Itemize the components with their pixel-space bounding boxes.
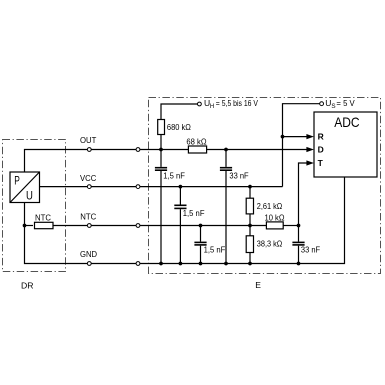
svg-text:H: H	[210, 104, 214, 110]
svg-text:= 5 V: = 5 V	[336, 98, 355, 108]
svg-text:10 kΩ: 10 kΩ	[265, 213, 285, 223]
svg-text:P: P	[14, 174, 20, 188]
svg-text:68 kΩ: 68 kΩ	[186, 137, 206, 147]
svg-text:R: R	[318, 132, 324, 142]
svg-text:1,5 nF: 1,5 nF	[163, 170, 185, 180]
svg-text:DR: DR	[21, 281, 34, 291]
svg-text:1,5 nF: 1,5 nF	[183, 208, 205, 218]
svg-text:T: T	[318, 158, 324, 168]
svg-text:OUT: OUT	[80, 135, 96, 145]
svg-text:E: E	[255, 280, 261, 290]
svg-text:ADC: ADC	[334, 114, 359, 130]
svg-text:38,3 kΩ: 38,3 kΩ	[257, 239, 283, 249]
svg-text:680 kΩ: 680 kΩ	[167, 122, 191, 132]
svg-text:S: S	[331, 103, 335, 110]
svg-text:NTC: NTC	[80, 211, 96, 221]
svg-text:VCC: VCC	[80, 173, 96, 183]
svg-text:1,5 nF: 1,5 nF	[204, 244, 226, 254]
svg-text:U: U	[26, 188, 33, 202]
svg-text:33 nF: 33 nF	[229, 170, 248, 180]
svg-text:D: D	[318, 145, 324, 155]
svg-text:GND: GND	[80, 249, 97, 259]
svg-text:NTC: NTC	[35, 213, 51, 223]
svg-text:2,61 kΩ: 2,61 kΩ	[257, 201, 283, 211]
svg-text:33 nF: 33 nF	[301, 244, 320, 254]
svg-text:= 5,5 bis 16 V: = 5,5 bis 16 V	[216, 98, 258, 108]
